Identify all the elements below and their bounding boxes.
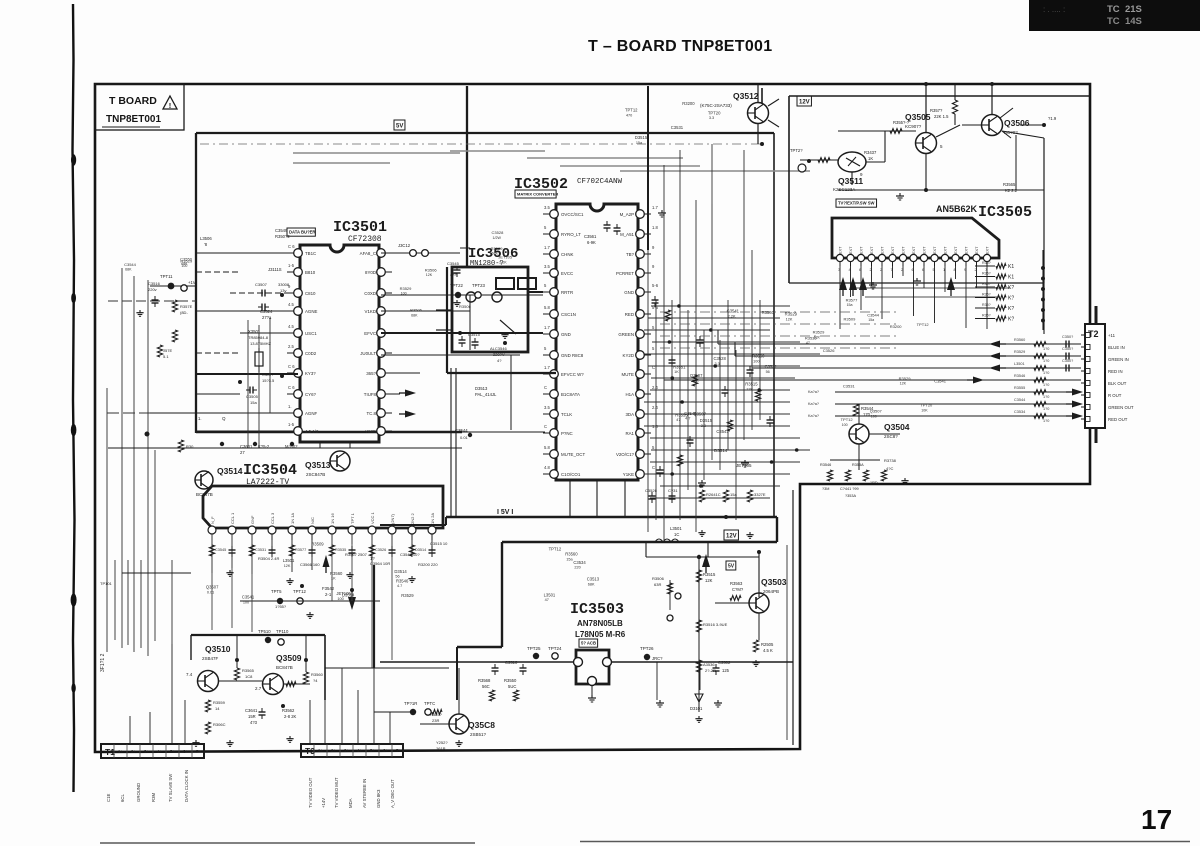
svg-text:T BOARD: T BOARD	[109, 95, 157, 107]
svg-text:1?0: 1?0	[1043, 395, 1049, 399]
svg-text:L3501: L3501	[1014, 362, 1025, 366]
svg-text:7+: 7+	[396, 748, 401, 753]
svg-text:2.2K: 2.2K	[728, 314, 736, 318]
svg-text:R OUT: R OUT	[1108, 393, 1122, 398]
svg-text:1.7: 1.7	[544, 245, 550, 250]
svg-text:12K: 12K	[426, 273, 433, 277]
svg-text:TPT12: TPT12	[293, 589, 307, 594]
svg-text:C350?: C350?	[1062, 359, 1073, 363]
svg-text:EXT: EXT	[860, 246, 864, 254]
svg-text:Y252?: Y252?	[436, 740, 448, 745]
svg-text:13.875MHZ: 13.875MHZ	[250, 341, 271, 346]
svg-text:1.: 1.	[198, 416, 202, 421]
svg-text:EXT: EXT	[870, 246, 874, 254]
svg-text:1+: 1+	[118, 749, 123, 754]
svg-text:R3546: R3546	[1014, 374, 1025, 378]
svg-text:R3551: R3551	[673, 364, 686, 369]
svg-text:2N2 2: 2N2 2	[410, 513, 415, 524]
svg-text:R3529: R3529	[180, 258, 193, 263]
svg-text:OVCC/SC1: OVCC/SC1	[561, 212, 584, 217]
svg-text:68K: 68K	[492, 252, 499, 256]
svg-text:1?0: 1?0	[1043, 359, 1049, 363]
svg-text:Q3511: Q3511	[838, 176, 863, 186]
svg-text:RRTR: RRTR	[561, 290, 573, 295]
svg-text:R3200 220: R3200 220	[418, 562, 438, 567]
svg-text:M_A51: M_A51	[620, 232, 634, 237]
svg-text:(K75C-2SA733): (K75C-2SA733)	[700, 103, 732, 108]
svg-text:K?5-2: K?5-2	[258, 444, 270, 449]
svg-text:2064PB: 2064PB	[763, 589, 779, 594]
svg-text:K1: K1	[1008, 264, 1014, 270]
svg-text:TPT23: TPT23	[472, 283, 486, 288]
svg-text:TPT12: TPT12	[917, 322, 930, 327]
svg-text:R3504 2.4R: R3504 2.4R	[258, 556, 279, 561]
svg-text:Q: Q	[222, 416, 226, 421]
svg-text:1RD: 1RD	[870, 481, 878, 485]
svg-text:EXT: EXT	[912, 246, 916, 254]
svg-text:R3437: R3437	[864, 150, 877, 155]
svg-text:TNP8ET001: TNP8ET001	[106, 114, 161, 125]
svg-text:4.7: 4.7	[397, 584, 402, 588]
svg-text:5.8: 5.8	[544, 445, 550, 450]
svg-text:15R: 15R	[248, 714, 256, 719]
svg-text:1/2W: 1/2W	[493, 236, 502, 240]
svg-text:C3510: C3510	[505, 660, 518, 665]
svg-text:C3513: C3513	[587, 577, 600, 582]
svg-text:L3506: L3506	[200, 236, 212, 241]
svg-text:C3601: C3601	[240, 444, 253, 449]
svg-text:C: C	[544, 424, 547, 429]
svg-text:GREEN OUT: GREEN OUT	[1108, 405, 1134, 410]
svg-text:0.01: 0.01	[207, 590, 214, 594]
svg-text:100: 100	[842, 423, 848, 427]
svg-text:C 6: C 6	[288, 244, 295, 249]
svg-text:EXT: EXT	[902, 246, 906, 254]
svg-text:R3506: R3506	[459, 304, 472, 309]
svg-text:1+: 1+	[318, 748, 323, 753]
svg-text:ALC3546: ALC3546	[490, 346, 507, 351]
svg-text:TC 21S: TC 21S	[1107, 4, 1142, 15]
svg-text:R3577: R3577	[846, 298, 859, 303]
svg-text:TPT12: TPT12	[549, 547, 562, 552]
svg-text:5UC: 5UC	[508, 684, 516, 689]
svg-text:EXT: EXT	[944, 246, 948, 254]
svg-text:EXT: EXT	[891, 246, 895, 254]
svg-text:2SC847B: 2SC847B	[306, 472, 325, 477]
svg-text:D3514: D3514	[714, 448, 728, 453]
svg-text:C0XD: C0XD	[364, 291, 376, 296]
svg-text:C: C	[652, 465, 655, 470]
svg-text:+1V: +1V	[188, 280, 196, 285]
svg-text:7+: 7+	[196, 749, 201, 754]
svg-text:V2O/C1?: V2O/C1?	[616, 452, 635, 457]
svg-text:2+: 2+	[331, 748, 336, 753]
svg-text:I 5V I: I 5V I	[497, 509, 513, 516]
svg-text:IC3503: IC3503	[570, 601, 624, 618]
svg-text:EXT: EXT	[933, 246, 937, 254]
svg-text:C3541: C3541	[242, 595, 255, 600]
svg-text:5+: 5+	[170, 749, 175, 754]
svg-text:C3549: C3549	[275, 228, 288, 233]
svg-text:Ka?a?: Ka?a?	[808, 390, 819, 394]
svg-text:C3515 10: C3515 10	[430, 541, 448, 546]
svg-text:2-1: 2-1	[325, 592, 332, 597]
svg-text:TPT 1: TPT 1	[350, 512, 355, 524]
svg-text:C3544: C3544	[867, 313, 880, 318]
svg-text:IC3505: IC3505	[978, 204, 1032, 221]
svg-text:RED IN: RED IN	[1108, 369, 1123, 374]
svg-text:15?3.5: 15?3.5	[262, 378, 275, 383]
svg-text:R3200: R3200	[682, 101, 695, 106]
svg-text:C3526: C3526	[645, 488, 658, 493]
svg-text:100: 100	[401, 292, 407, 296]
svg-text:R3529: R3529	[1014, 350, 1025, 354]
svg-text:CF702C4ANW: CF702C4ANW	[577, 178, 623, 186]
svg-text:68K: 68K	[411, 313, 418, 317]
svg-text:C3526: C3526	[823, 348, 836, 353]
svg-text:TPT24: TPT24	[548, 646, 562, 651]
svg-text:1C8: 1C8	[245, 674, 253, 679]
svg-text:P?NC: P?NC	[561, 431, 573, 436]
svg-text:R355A: R355A	[852, 463, 864, 467]
svg-text:14: 14	[215, 706, 220, 711]
svg-text:K?: K?	[1008, 317, 1014, 323]
svg-text:4.5: 4.5	[288, 324, 294, 329]
svg-text:4.5 1/2: 4.5 1/2	[305, 429, 319, 434]
svg-text:3327E: 3327E	[754, 492, 766, 497]
svg-text:GND: GND	[624, 290, 634, 295]
svg-text:TV?/EXT/P.SW SW: TV?/EXT/P.SW SW	[838, 201, 874, 206]
svg-text:47: 47	[676, 418, 680, 422]
svg-text:D3514: D3514	[394, 569, 407, 574]
svg-text:100: 100	[243, 600, 249, 604]
svg-text:5-6: 5-6	[652, 283, 659, 288]
svg-text:K?: K?	[1008, 306, 1014, 312]
svg-text:Y1KE: Y1KE	[623, 472, 634, 477]
svg-text:6CL: 6CL	[120, 794, 125, 802]
svg-text:C3531: C3531	[255, 548, 266, 552]
svg-text:33008: 33008	[278, 282, 290, 287]
svg-text:R3M: R3M	[151, 793, 156, 802]
svg-text:1?0: 1?0	[1043, 407, 1049, 411]
svg-text:12V: 12V	[799, 100, 810, 106]
svg-text:PAL_414JL: PAL_414JL	[475, 392, 497, 397]
svg-text:C?M?: C?M?	[732, 587, 744, 592]
svg-text:Ka?a?: Ka?a?	[808, 414, 819, 418]
svg-text:R3509: R3509	[844, 316, 857, 321]
svg-text:J3C12: J3C12	[398, 243, 411, 248]
svg-text:R306C: R306C	[213, 722, 226, 727]
svg-text:4.7: 4.7	[685, 417, 690, 421]
svg-text:R35?: R35?	[982, 314, 991, 318]
svg-text:TB1C: TB1C	[305, 251, 316, 256]
svg-text:R3560: R3560	[762, 310, 775, 315]
svg-text:2?-2R: 2?-2R	[705, 668, 716, 673]
svg-text:100: 100	[181, 264, 187, 268]
svg-text:CHNK: CHNK	[561, 252, 574, 257]
svg-text:C350?: C350?	[1062, 335, 1073, 339]
svg-text:EXT: EXT	[965, 246, 969, 254]
svg-text:TCLK: TCLK	[561, 412, 572, 417]
svg-text:1.8: 1.8	[652, 225, 658, 230]
svg-text:100: 100	[871, 414, 877, 418]
svg-text:TP101: TP101	[100, 581, 113, 586]
svg-text:2.4: 2.4	[652, 385, 658, 390]
svg-text:M_A2P: M_A2P	[620, 212, 634, 217]
svg-text:2+: 2+	[131, 749, 136, 754]
svg-text:USC1: USC1	[305, 331, 317, 336]
svg-text:TPTC: TPTC	[424, 701, 435, 706]
svg-text:68K: 68K	[588, 583, 595, 587]
svg-text:C3541: C3541	[727, 309, 740, 314]
svg-text:TR85984-8: TR85984-8	[248, 335, 269, 340]
svg-text:1?55?: 1?55?	[275, 604, 287, 609]
svg-text:220v: 220v	[148, 287, 157, 292]
svg-text:?1.9: ?1.9	[1048, 116, 1057, 121]
svg-text:CSC1N: CSC1N	[561, 312, 576, 317]
svg-text:R3529: R3529	[785, 312, 798, 317]
svg-text:C3545: C3545	[447, 261, 460, 266]
svg-text:AN78N05LB: AN78N05LB	[577, 619, 623, 628]
svg-text:12V: 12V	[726, 534, 737, 540]
svg-text:X350:: X350:	[248, 329, 259, 334]
svg-text:R3555: R3555	[1014, 386, 1025, 390]
svg-text:RA1: RA1	[625, 431, 634, 436]
svg-text:2.7: 2.7	[255, 686, 262, 691]
svg-text:B1C8ATA: B1C8ATA	[561, 392, 580, 397]
svg-text:CY6?: CY6?	[305, 392, 317, 397]
svg-text:4?C: 4?C	[886, 466, 893, 471]
svg-text:JU0ULT: JU0ULT	[360, 351, 376, 356]
svg-text:R3506: R3506	[425, 268, 438, 273]
svg-text:R35?: R35?	[982, 282, 991, 286]
svg-text:A3536: A3536	[703, 662, 715, 667]
svg-text:RED: RED	[625, 312, 634, 317]
svg-text:C350?: C350?	[1062, 347, 1073, 351]
svg-text:EFVC: EFVC	[364, 331, 376, 336]
svg-text:15a: 15a	[847, 303, 853, 307]
svg-text:3.5: 3.5	[544, 405, 550, 410]
svg-text:Q3503: Q3503	[761, 577, 787, 587]
svg-text:GNF: GNF	[250, 515, 255, 524]
svg-text:TP510: TP510	[258, 629, 271, 634]
svg-text:+11: +11	[1108, 333, 1116, 338]
svg-text:K?: K?	[1008, 285, 1014, 291]
svg-text:R355?-?: R355?-?	[893, 120, 910, 125]
svg-text:Q35C8: Q35C8	[468, 720, 495, 730]
svg-text:IC3501: IC3501	[333, 219, 387, 236]
svg-text:2SB51?: 2SB51?	[470, 732, 487, 737]
svg-text:R3565: R3565	[242, 668, 255, 673]
svg-text:R3562: R3562	[282, 708, 295, 713]
svg-text:CCL 3: CCL 3	[270, 512, 275, 524]
svg-text:JET105: JET105	[498, 255, 513, 260]
svg-text:4?: 4?	[497, 358, 502, 363]
svg-text:5+: 5+	[370, 748, 375, 753]
svg-text:22K 1.5: 22K 1.5	[934, 114, 949, 119]
svg-text:KY3?: KY3?	[305, 371, 316, 376]
svg-text:TP110: TP110	[276, 629, 289, 634]
svg-text:1.: 1.	[288, 404, 292, 409]
svg-text:1K: 1K	[674, 370, 679, 374]
svg-text:(2N7): (2N7)	[390, 513, 395, 524]
svg-text:R3506: R3506	[652, 576, 665, 581]
svg-text:MATRIX CONVERTER: MATRIX CONVERTER	[517, 192, 558, 197]
svg-text:R3506: R3506	[410, 308, 423, 313]
svg-text:47: 47	[545, 598, 549, 602]
svg-text:JET105: JET105	[736, 463, 752, 468]
svg-text:C3516: C3516	[148, 281, 161, 286]
svg-text:1?0: 1?0	[1043, 419, 1049, 423]
svg-text:100: 100	[753, 359, 759, 363]
svg-text:L3501: L3501	[670, 526, 682, 531]
svg-text:H1A: H1A	[625, 392, 634, 397]
svg-text:TPT5: TPT5	[271, 589, 282, 594]
svg-text:6-9K: 6-9K	[587, 240, 596, 245]
svg-text:D3515: D3515	[635, 135, 648, 140]
svg-text:2SB47F: 2SB47F	[202, 656, 219, 661]
svg-text:Y88E: Y88E	[365, 429, 376, 434]
svg-text:6+: 6+	[183, 749, 188, 754]
svg-text:C3561: C3561	[584, 234, 597, 239]
svg-text:47: 47	[806, 341, 810, 345]
svg-text:R3516 3-9UE: R3516 3-9UE	[703, 622, 728, 627]
svg-text:15a: 15a	[868, 318, 874, 322]
svg-text:R3550: R3550	[504, 678, 517, 683]
svg-text:R3535: R3535	[805, 335, 818, 340]
svg-text:C3502: C3502	[718, 660, 731, 665]
svg-text:1-5: 1-5	[288, 263, 295, 268]
svg-text:27: 27	[240, 450, 245, 455]
svg-text:23R: 23R	[432, 718, 439, 723]
svg-text:BLK OUT: BLK OUT	[1108, 381, 1127, 386]
svg-text:C3564 10R: C3564 10R	[370, 561, 390, 566]
svg-text:5.1: 5.1	[163, 354, 169, 359]
svg-text:EXT: EXT	[923, 246, 927, 254]
svg-text:Q3510: Q3510	[205, 644, 231, 654]
svg-text:C3531: C3531	[843, 384, 856, 389]
svg-text:TV SLAVE SW: TV SLAVE SW	[168, 773, 173, 802]
svg-text:C3544: C3544	[1014, 398, 1025, 402]
svg-text:TIUF8: TIUF8	[364, 392, 377, 397]
svg-text:12K: 12K	[786, 317, 793, 321]
svg-text:AFA8_C: AFA8_C	[360, 251, 376, 256]
svg-text:12K: 12K	[746, 387, 753, 391]
svg-text:VCC 1: VCC 1	[370, 511, 375, 524]
svg-text:B810: B810	[305, 270, 316, 275]
svg-text:EFVCC W?: EFVCC W?	[561, 372, 584, 377]
svg-text:1N 16: 1N 16	[330, 513, 335, 524]
svg-text:K1: K1	[1008, 275, 1014, 281]
svg-text:TPT25: TPT25	[527, 646, 541, 651]
svg-text:4.8: 4.8	[544, 465, 550, 470]
svg-text:C3545: C3545	[215, 548, 226, 552]
svg-text:GND 8K3: GND 8K3	[376, 789, 381, 808]
svg-text:3.5: 3.5	[544, 264, 550, 269]
svg-text:N/C: N/C	[310, 517, 315, 524]
svg-text:8Y0D: 8Y0D	[365, 270, 376, 275]
svg-text:D3513: D3513	[475, 386, 488, 391]
svg-text:AV STEREE IN: AV STEREE IN	[362, 779, 367, 808]
svg-text:5V: 5V	[728, 564, 735, 570]
svg-text:1?0: 1?0	[1043, 383, 1049, 387]
svg-text:R35?: R35?	[982, 261, 991, 265]
svg-text:1.7: 1.7	[544, 325, 550, 330]
svg-text:LA7222-TV: LA7222-TV	[246, 478, 289, 487]
svg-text:C: C	[544, 385, 547, 390]
svg-text:MUTE: MUTE	[622, 372, 635, 377]
svg-text:Ka?a?: Ka?a?	[808, 402, 819, 406]
svg-text:K?: K?	[1008, 296, 1014, 302]
svg-text:RED OUT: RED OUT	[1108, 417, 1128, 422]
svg-text:EXT: EXT	[839, 246, 843, 254]
svg-text:DATA BU?ER: DATA BU?ER	[289, 230, 315, 235]
svg-text:IC3504: IC3504	[243, 462, 297, 479]
svg-text:C3641: C3641	[245, 708, 258, 713]
svg-text:GND: GND	[561, 332, 571, 337]
svg-text:BLUE IN: BLUE IN	[1108, 345, 1125, 350]
svg-text:C?31: C?31	[668, 488, 678, 493]
svg-text:C3541: C3541	[934, 378, 947, 383]
svg-text:68K: 68K	[125, 267, 132, 271]
svg-text:EVCC: EVCC	[561, 271, 573, 276]
svg-text:F3542: F3542	[322, 586, 335, 591]
svg-text:27?a: 27?a	[262, 315, 272, 320]
svg-text:R35?: R35?	[982, 293, 991, 297]
svg-text:TPT12: TPT12	[625, 108, 638, 113]
svg-text:10K: 10K	[921, 408, 928, 412]
svg-text:1.7: 1.7	[544, 365, 550, 370]
svg-text:5V: 5V	[396, 124, 403, 130]
svg-text:GREEN IN: GREEN IN	[1108, 357, 1129, 362]
svg-text:4+: 4+	[357, 748, 362, 753]
svg-text:4.5: 4.5	[288, 302, 294, 307]
svg-text:R3529: R3529	[899, 376, 912, 381]
svg-text:TC 14S: TC 14S	[1107, 16, 1142, 27]
svg-text:3+: 3+	[344, 748, 349, 753]
svg-text:TPT26: TPT26	[640, 646, 654, 651]
svg-text:3.3: 3.3	[714, 362, 719, 366]
svg-text:R357E: R357E	[180, 304, 193, 309]
svg-text:MUTE_OCT: MUTE_OCT	[561, 452, 585, 457]
svg-text:Q3514: Q3514	[217, 466, 243, 476]
svg-text:15a: 15a	[730, 492, 737, 497]
svg-text:1?0: 1?0	[1043, 371, 1049, 375]
svg-text:KY2D: KY2D	[623, 353, 634, 358]
svg-text:R3529: R3529	[400, 286, 413, 291]
svg-text:CF72308: CF72308	[348, 235, 382, 244]
svg-text:1K: 1K	[868, 156, 873, 161]
svg-text:R3568: R3568	[478, 678, 491, 683]
svg-text:?3M: ?3M	[822, 487, 829, 491]
svg-text:1-5: 1-5	[288, 422, 295, 427]
svg-text:CCL 1: CCL 1	[230, 512, 235, 524]
svg-text:C3528: C3528	[713, 356, 726, 361]
svg-text:A_V DEC OUT: A_V DEC OUT	[390, 779, 395, 808]
svg-text:4.5 K: 4.5 K	[763, 648, 773, 653]
svg-text:C1E: C1E	[106, 794, 111, 802]
svg-text:L3501: L3501	[283, 558, 295, 563]
svg-text:R350?2: R350?2	[275, 234, 290, 239]
svg-text:15a: 15a	[250, 400, 257, 405]
svg-text:1.8: 1.8	[652, 424, 658, 429]
svg-text:?4: ?4	[313, 678, 318, 683]
svg-text:12K: 12K	[900, 381, 907, 385]
svg-text:56C: 56C	[482, 684, 490, 689]
svg-text:R3515: R3515	[745, 382, 758, 387]
svg-text:3.3: 3.3	[709, 116, 714, 120]
svg-text:C3534: C3534	[1014, 410, 1025, 414]
